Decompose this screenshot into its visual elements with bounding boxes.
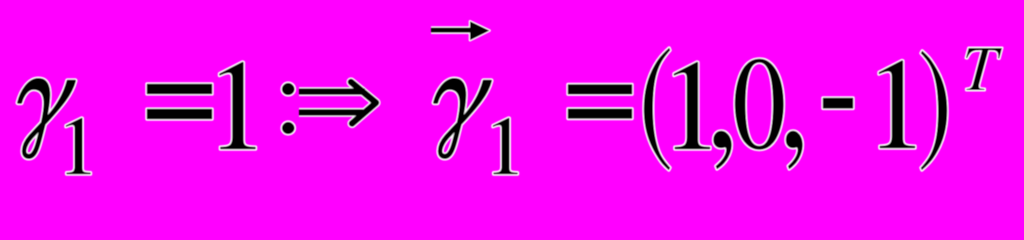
- vector arrow accent over second gamma: [431, 21, 490, 40]
- digit 1 inside parentheses: [674, 62, 710, 149]
- superscript capital T (transpose): [966, 48, 1002, 90]
- greek letter gamma, first occurrence: [18, 79, 75, 158]
- opening parenthesis: [644, 48, 670, 170]
- first comma: [714, 131, 732, 169]
- first equals sign: [147, 84, 212, 119]
- closing parenthesis: [921, 51, 947, 170]
- minus sign: [823, 98, 853, 108]
- colon: [282, 83, 295, 134]
- double arrow implies symbol: [299, 82, 376, 124]
- subscript 1 of first gamma: [66, 118, 91, 174]
- greek letter gamma, second occurrence (vector gamma): [434, 79, 491, 158]
- magenta background: [0, 0, 1024, 187]
- second comma: [786, 131, 803, 169]
- digit 1 after first equals: [220, 62, 256, 149]
- digit 0 inside parentheses: [735, 59, 784, 150]
- subscript 1 of second gamma: [493, 118, 518, 174]
- second equals sign: [568, 85, 632, 119]
- digit 1 after minus sign: [879, 61, 915, 149]
